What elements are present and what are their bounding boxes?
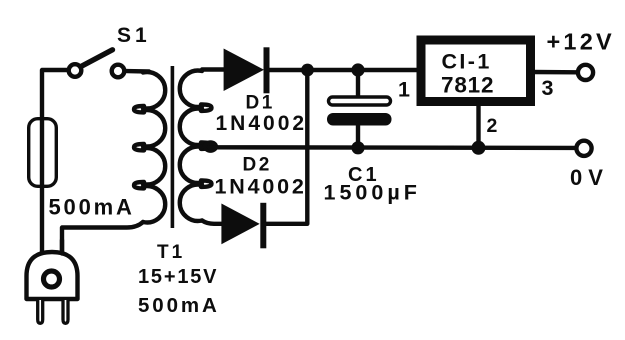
wire 0V rail (center tap to 0V terminal): [209, 145, 577, 150]
wire plug right lead to transformer primary bottom: [60, 240, 64, 254]
plug prong right: [63, 300, 68, 323]
svg-text:2: 2: [487, 115, 498, 137]
svg-text:+12V: +12V: [547, 29, 615, 55]
node center tap dot: [203, 140, 218, 153]
wire + rail (D1 cathode to regulator input): [268, 68, 419, 72]
terminal +12V: [578, 65, 593, 80]
svg-text:1N4002: 1N4002: [216, 112, 308, 135]
svg-text:CI-1: CI-1: [442, 50, 492, 74]
svg-text:1: 1: [398, 78, 410, 102]
capacitor C1: [327, 97, 392, 126]
plug body (mains plug): [27, 252, 78, 299]
plug prong left: [38, 300, 43, 323]
transformer T1 core: [171, 66, 175, 228]
svg-text:500mA: 500mA: [138, 294, 220, 317]
svg-text:0V: 0V: [570, 165, 609, 190]
fuse 500mA: [29, 119, 57, 187]
svg-text:D2: D2: [243, 155, 272, 176]
wire pin 3 to +12V terminal: [532, 70, 578, 75]
svg-text:S1: S1: [117, 24, 151, 47]
svg-text:T1: T1: [157, 242, 185, 263]
node junction dot (D2 branch on + rail): [301, 64, 314, 77]
svg-text:D1: D1: [246, 93, 275, 114]
transformer T1 secondary winding: [180, 70, 226, 224]
diode D2: [221, 203, 266, 249]
node junction dot (pin2 on 0V rail): [472, 141, 486, 155]
wire C1 bottom stub: [356, 124, 360, 148]
node junction dot (C1 bottom on 0V rail): [351, 141, 364, 154]
svg-text:15+15V: 15+15V: [138, 266, 218, 288]
svg-text:3: 3: [542, 76, 554, 100]
svg-text:1500µF: 1500µF: [324, 181, 421, 205]
diode D1: [224, 47, 270, 93]
wire C1 top stub: [356, 70, 360, 101]
regulator CI-1 7812: [421, 40, 531, 102]
wire switch to transformer primary: [125, 69, 150, 74]
wire D2 cathode up to +rail: [265, 70, 307, 224]
terminal 0V: [576, 141, 591, 156]
wire mains left vertical (plug to switch): [42, 70, 69, 254]
svg-text:7812: 7812: [441, 73, 494, 98]
wire pin 2 down to 0V rail: [476, 100, 480, 148]
svg-text:1N4002: 1N4002: [215, 175, 307, 199]
switch S1: [69, 50, 125, 77]
transformer T1 primary winding: [62, 72, 165, 257]
svg-text:500mA: 500mA: [49, 195, 135, 220]
node junction dot (C1 top on + rail): [351, 63, 364, 76]
